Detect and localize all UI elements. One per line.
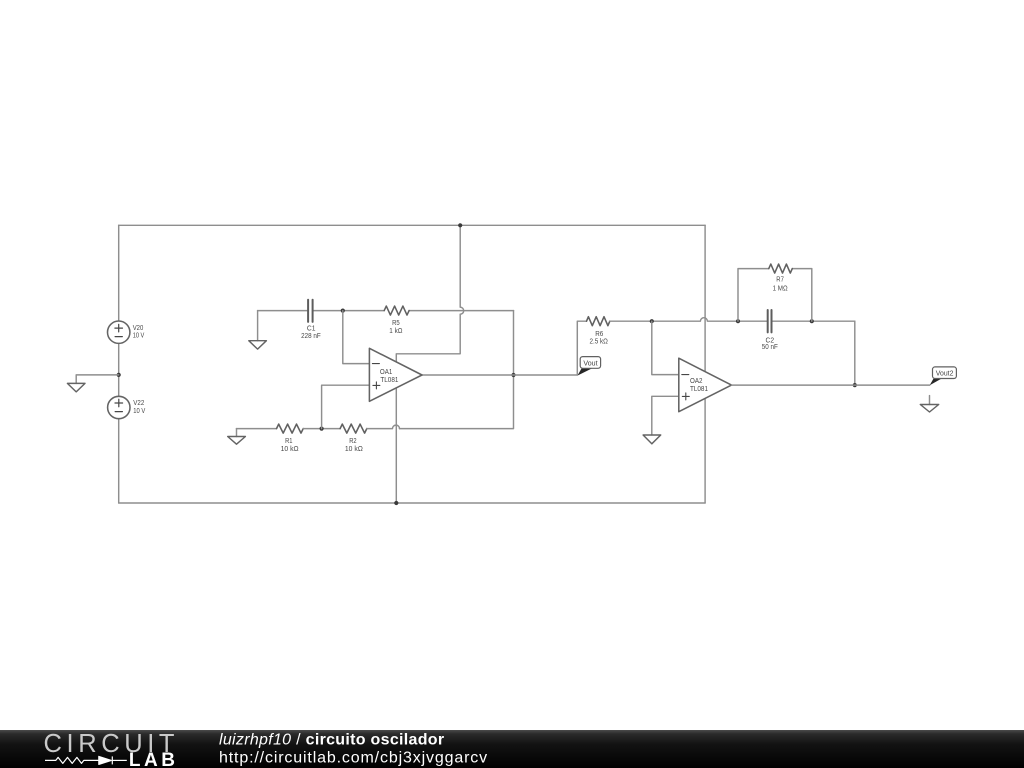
wire OA2 non-inverting to ground — [652, 396, 679, 435]
wire left rail middle — [118, 343, 120, 396]
svg-text:TL081: TL081 — [690, 384, 708, 393]
wire OA1 output — [422, 374, 577, 376]
wire R6 left leg — [577, 321, 586, 375]
svg-text:10 kΩ: 10 kΩ — [281, 444, 299, 453]
svg-text:1 MΩ: 1 MΩ — [773, 284, 788, 293]
svg-text:50 nF: 50 nF — [762, 342, 778, 351]
wire C1 ground stem — [257, 311, 259, 341]
ground G5 (Vout2) — [920, 396, 938, 412]
svg-text:10 V: 10 V — [133, 406, 145, 415]
wire OA1 V+ path with hop over R5 line — [396, 225, 463, 362]
svg-text:R7: R7 — [776, 275, 784, 284]
svg-text:Vout: Vout — [583, 358, 598, 367]
junction R1/R2/non-inverting — [320, 427, 324, 431]
ground G1 — [67, 383, 85, 392]
wire junction to OA1 non-inverting input — [322, 385, 370, 428]
junction left-rail/ground — [117, 373, 121, 377]
capacitor C2 — [762, 310, 778, 351]
svg-text:2.5 kΩ: 2.5 kΩ — [590, 337, 609, 346]
wire top rail — [119, 224, 705, 226]
wire C1 left / R5 line — [258, 310, 385, 312]
resistor R7 — [769, 264, 793, 292]
op-amp OA2 — [679, 358, 732, 412]
junction C2 right — [810, 319, 814, 323]
svg-text:LAB: LAB — [129, 750, 179, 768]
ground G3 (R1) — [228, 437, 246, 445]
wire R6 right with hop over right rail — [610, 318, 738, 321]
wire R2 right with hop over OA1 V- line — [367, 425, 400, 428]
wire left rail upper — [118, 225, 120, 321]
wire R5 right to corner — [409, 310, 513, 312]
voltage source V22 — [108, 396, 146, 418]
wire junction to OA1 inverting input — [343, 311, 370, 364]
ground G4 (OA2 +) — [643, 435, 661, 444]
wire R5 corner down to output node and R2 — [400, 311, 514, 429]
wire OA1 V- to bottom rail — [395, 388, 397, 503]
logo resistor-diode glyph — [45, 756, 127, 764]
junction V+ / top rail — [458, 223, 462, 227]
ground G2 (C1) — [249, 341, 267, 349]
wire R1 left lead — [237, 428, 277, 430]
wire left rail lower — [118, 419, 120, 503]
junction OA1 output node — [511, 373, 515, 377]
svg-text:1 kΩ: 1 kΩ — [389, 326, 403, 335]
wire bottom rail — [119, 502, 705, 504]
wire to ground G1 — [76, 375, 119, 384]
wire OA2 output — [732, 384, 930, 386]
svg-text:TL081: TL081 — [380, 375, 398, 384]
wire R1 ground stem — [236, 429, 238, 437]
resistor R2 — [340, 424, 367, 453]
junction R6/OA2 inverting link — [650, 319, 654, 323]
wire R7 branch — [738, 269, 812, 322]
resistor R5 — [384, 306, 409, 335]
wire C2 line — [738, 320, 855, 322]
wire C2 right leg down to output — [854, 321, 856, 385]
junction V- / bottom rail — [394, 501, 398, 505]
svg-text:228 nF: 228 nF — [301, 331, 321, 340]
wire R1-R2 — [303, 428, 340, 430]
resistor R1 — [277, 424, 304, 453]
svg-text:http://circuitlab.com/cbj3xjvg: http://circuitlab.com/cbj3xjvggarcv — [219, 749, 488, 766]
FOOTER BAR — [0, 730, 1024, 768]
svg-text:Vout2: Vout2 — [936, 369, 954, 378]
junction C2 left — [736, 319, 740, 323]
svg-text:10 V: 10 V — [133, 331, 145, 340]
svg-text:10 kΩ: 10 kΩ — [345, 444, 363, 453]
resistor R6 — [587, 317, 610, 346]
flag Vout — [577, 357, 600, 376]
junction output/C2 leg — [853, 383, 857, 387]
voltage source V20 — [108, 321, 145, 343]
wire link to OA2 inverting input — [652, 321, 679, 374]
svg-text:luizrhpf10 / circuito oscilado: luizrhpf10 / circuito oscilador — [219, 732, 444, 749]
junction C1/R5/inverting-input — [341, 309, 345, 313]
capacitor C1 — [301, 300, 321, 340]
wire right rail — [704, 225, 706, 503]
flag Vout2 — [930, 367, 957, 385]
op-amp OA1 — [369, 348, 422, 401]
